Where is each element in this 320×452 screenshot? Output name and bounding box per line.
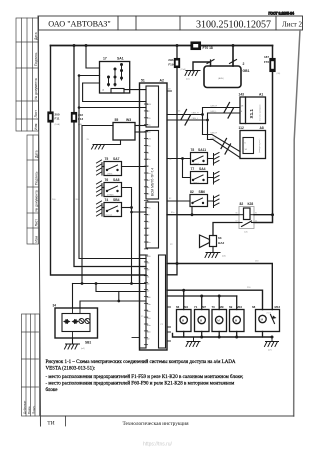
wire: HA2 ground lead xyxy=(212,247,214,253)
svg-text:К28: К28 xyxy=(248,202,254,206)
wire: lock feed bus (to M12 right pin) xyxy=(167,264,272,310)
wire: top supply bus xyxy=(51,45,273,47)
svg-text:70: 70 xyxy=(212,305,216,309)
pin label (m7) xyxy=(268,350,272,352)
svg-text:SA7: SA7 xyxy=(113,157,120,161)
node: SB6 junction xyxy=(191,213,194,216)
svg-text:https://tns.ru/: https://tns.ru/ xyxy=(143,442,173,448)
svg-text:ОАО "АВТОВАЗ": ОАО "АВТОВАЗ" xyxy=(48,20,110,29)
wire: motor return bus xyxy=(173,334,273,338)
svg-text:Х1.1: Х1.1 xyxy=(249,109,254,119)
A1 rotated connector label X1.1 xyxy=(249,109,254,119)
svg-text:М7: М7 xyxy=(202,305,206,309)
svg-text:блоке: блоке xyxy=(46,388,59,393)
component label 66 M4 xyxy=(176,305,188,309)
motor M7 (door lock actuator FR) xyxy=(195,310,210,332)
component label 82 K28 xyxy=(240,202,254,206)
pin label (kapot) xyxy=(193,163,199,165)
fuse F76 xyxy=(270,59,275,72)
wire: SA8 joining door-switch bus xyxy=(122,188,132,284)
SB1 contact arrows xyxy=(63,319,79,324)
value label 29b F19 xyxy=(168,58,174,67)
ground (HA2) xyxy=(205,253,220,258)
ground (SA4) xyxy=(208,172,220,185)
wire: SA1 ign contact to A2 xyxy=(83,83,146,102)
component label 78 SA11 xyxy=(191,148,207,152)
battery GB1 xyxy=(204,66,241,88)
svg-text:A1: A1 xyxy=(259,93,263,97)
svg-text:VESTA (21803-013-51):: VESTA (21803-013-51): xyxy=(46,367,96,372)
motor M9 (door lock actuator RL) xyxy=(212,310,227,332)
svg-text:66: 66 xyxy=(176,305,180,309)
ground (SA8 door switch) xyxy=(97,181,103,196)
A2 lower connector strip left xyxy=(140,255,147,348)
wire: M4 drop xyxy=(183,290,185,309)
node: M4 tap xyxy=(182,289,185,292)
svg-text:82: 82 xyxy=(240,202,244,206)
svg-text:76: 76 xyxy=(105,178,109,182)
svg-text:75: 75 xyxy=(105,157,109,161)
svg-text:(м5): (м5) xyxy=(81,348,85,350)
svg-text:М12: М12 xyxy=(275,305,281,309)
svg-text:143: 143 xyxy=(239,93,245,97)
component label 17 SA1 xyxy=(103,57,124,61)
node: junction at 110.3 xyxy=(78,106,81,109)
svg-text:Лист 2: Лист 2 xyxy=(282,20,302,28)
K28 contact xyxy=(239,221,254,227)
switch SA4 xyxy=(183,159,191,178)
figure caption text xyxy=(46,360,244,393)
wire: battery negative to ground xyxy=(193,62,211,71)
ground (M12) xyxy=(265,337,279,347)
component label 143 A1 xyxy=(239,93,264,97)
svg-text:(капот): (капот) xyxy=(193,163,199,165)
svg-text:Изм: Изм xyxy=(34,123,38,130)
pin labels A1 xyxy=(241,106,244,114)
wire: M10 bottom lead xyxy=(236,332,238,338)
buzzer HA2 (alarm horn) xyxy=(200,235,217,248)
wire: SB1 right feed xyxy=(80,301,146,308)
component label 55 W3 xyxy=(115,118,132,122)
svg-text:69: 69 xyxy=(229,305,233,309)
svg-text:Изм: Изм xyxy=(35,236,39,243)
pin label (lev) xyxy=(107,174,113,176)
ground (SB1) xyxy=(65,344,80,349)
wire: SB6 drop to relay line xyxy=(191,207,193,215)
A2 connector column X3 xyxy=(146,202,159,248)
svg-text:Подпись: Подпись xyxy=(34,52,38,66)
ground (SB6) xyxy=(208,195,220,208)
wire: M4 bottom lead xyxy=(183,332,185,338)
svg-text:F70 18: F70 18 xyxy=(203,46,213,50)
switch SA7 (front left door) xyxy=(102,162,122,176)
pin labels K28 xyxy=(236,213,258,234)
svg-text:Подл.: Подл. xyxy=(31,406,35,414)
value label F70 18 xyxy=(203,46,213,50)
fuse F70 (in-line on top bus) xyxy=(191,42,201,50)
pin labels CAN xyxy=(178,105,218,141)
svg-text:F76: F76 xyxy=(264,60,270,64)
svg-text:Дата: Дата xyxy=(35,150,39,158)
svg-text:Рисунок 1-1 – Схема электричес: Рисунок 1-1 – Схема электрических соедин… xyxy=(46,360,236,365)
pin label (m5) xyxy=(81,348,85,350)
svg-text:(м6): (м6) xyxy=(222,256,226,258)
fuse F11 xyxy=(48,112,53,122)
component label 76 SA8 xyxy=(105,178,120,182)
svg-text:ГОСТ 3.1105-84: ГОСТ 3.1105-84 xyxy=(269,12,295,16)
fuse F13 xyxy=(71,113,76,123)
A2 lower strip pin ticks xyxy=(144,255,147,345)
svg-text:78: 78 xyxy=(191,148,195,152)
node: SA1 feed junctions xyxy=(78,74,81,77)
svg-text:(м7): (м7) xyxy=(268,350,272,352)
svg-text:(панель приборов): (панель приборов) xyxy=(260,104,262,121)
svg-text:SA8: SA8 xyxy=(113,178,120,182)
pin labels: scattered wire numbers xyxy=(52,139,259,326)
ground (battery) xyxy=(185,71,200,76)
svg-text:Лист: Лист xyxy=(35,219,39,227)
svg-text:CAN_L: CAN_L xyxy=(192,117,200,120)
M12 internal switch xyxy=(271,315,277,324)
svg-text:34: 34 xyxy=(53,304,57,308)
svg-text:CAN_H: CAN_H xyxy=(192,112,200,115)
svg-text:№ документа: № документа xyxy=(35,190,39,211)
wire: SB1 feed center xyxy=(72,284,74,309)
svg-text:71: 71 xyxy=(194,305,198,309)
wire: feed via F19 down to door motors bus xyxy=(167,46,177,275)
relay K28 xyxy=(239,207,254,229)
twisted pair marks (A2 side) xyxy=(181,110,191,126)
SA1 internal contacts xyxy=(109,64,122,86)
wire: feed to ignition switch SA1 xyxy=(79,46,100,84)
pin label 8 xyxy=(103,89,105,92)
pin label 48 xyxy=(168,89,171,91)
svg-text:(багаж): (багаж) xyxy=(106,215,113,217)
node: CAN junctions xyxy=(201,113,209,121)
document frame: left stamp block 3 xyxy=(22,314,40,416)
wire: M12 bottom lead xyxy=(262,332,264,338)
motor M12 (trunk lock actuator with switch) xyxy=(256,310,280,332)
svg-text:(5А): (5А) xyxy=(244,231,248,234)
node: SA8/SB4 junctions xyxy=(130,206,133,285)
node: junction dots on top bus xyxy=(73,44,235,47)
A2 connector column X1 xyxy=(146,86,159,127)
svg-text:Технологическая инструкция: Технологическая инструкция xyxy=(122,421,189,427)
fuse F19 xyxy=(174,59,179,68)
document frame: left stamp block 1 xyxy=(16,18,39,131)
value label 202 F13 xyxy=(78,113,84,121)
A8 rotated note xyxy=(259,138,261,153)
switch SB1 (central lock switch block) xyxy=(55,308,98,338)
wire: SA7 to BCM xyxy=(122,166,147,168)
svg-text:НА2: НА2 xyxy=(218,241,224,245)
battery terminal posts xyxy=(211,60,234,66)
twisted pair marks (A8 side) xyxy=(221,139,231,155)
svg-text:(ЛЕВ): (ЛЕВ) xyxy=(107,174,113,176)
svg-text:(10А): (10А) xyxy=(55,123,61,126)
M motor letter xyxy=(182,319,185,323)
pin label (30) xyxy=(277,73,281,75)
wire: SB4 to door-switch bus xyxy=(122,207,132,209)
SB1 indicator lamps xyxy=(79,319,90,324)
component label 63 HA2 xyxy=(218,236,224,245)
svg-text:CAN_L: CAN_L xyxy=(210,137,218,140)
pin label (m1) xyxy=(186,79,190,81)
pin label (720) xyxy=(267,313,272,315)
node: junctions on lower cross feed xyxy=(81,282,98,285)
svg-text:(30): (30) xyxy=(277,73,281,75)
svg-text:(задн): (задн) xyxy=(193,182,199,184)
wire: SB1 ground lead xyxy=(72,338,74,344)
component label 75 SA7 xyxy=(105,157,120,161)
A2 right pin ticks xyxy=(167,91,172,341)
svg-text:(колодка диагн.): (колодка диагн.) xyxy=(259,138,261,153)
antenna W3 (immobilizer coil) xyxy=(113,123,135,141)
ground (motor bus) xyxy=(186,337,200,347)
wire: riser link xyxy=(118,292,120,302)
svg-text:63: 63 xyxy=(218,236,222,240)
svg-text:CAN_L: CAN_L xyxy=(210,110,218,113)
battery positive drop wire xyxy=(232,46,234,67)
wire: unlock bus (to M12 left pin and M4) xyxy=(167,290,263,309)
wire: left vertical feed (circuit 200) xyxy=(51,46,147,276)
component label 82 SB6 xyxy=(190,190,205,194)
twisted pair marks (A1 side) xyxy=(224,103,234,119)
svg-text:A2: A2 xyxy=(160,79,164,83)
svg-text:(720): (720) xyxy=(267,313,272,315)
svg-text:SB6: SB6 xyxy=(199,190,206,194)
svg-text:№ документа: № документа xyxy=(34,78,38,99)
svg-text:М10: М10 xyxy=(237,305,243,309)
svg-text:W3: W3 xyxy=(126,118,131,122)
wire: A2 to relay K28 coil xyxy=(167,214,239,216)
pin label (bagazh) xyxy=(106,215,113,217)
component label 70 M9 xyxy=(212,305,224,309)
component label 34 SB1 xyxy=(53,304,92,345)
node: motor bus junctions xyxy=(200,295,221,298)
op-amp U3 / diagnostic connector A8 xyxy=(240,131,266,159)
ground (SA11) xyxy=(208,153,220,166)
svg-text:77: 77 xyxy=(191,167,195,171)
wire: K28 coil to battery feed xyxy=(254,214,273,216)
svg-text:3100.25100.12057: 3100.25100.12057 xyxy=(196,20,271,31)
wire: W3 feed dropping to lower cross feed xyxy=(82,126,113,284)
A2 pin number labels xyxy=(147,103,152,341)
switch SB4 (trunk lid) xyxy=(102,203,122,217)
svg-text:55: 55 xyxy=(115,118,119,122)
value label 200 F11 xyxy=(55,113,60,121)
wire: lower cross feed to BCM xyxy=(73,283,147,285)
svg-text:Дата: Дата xyxy=(34,32,38,40)
wire: motor bus (M7 M9 M10) xyxy=(167,295,237,297)
document frame: footer row TI xyxy=(65,416,67,426)
component label 51 A2 xyxy=(141,79,164,83)
component label 71 M7 xyxy=(194,305,206,309)
svg-text:SA1: SA1 xyxy=(117,57,124,61)
svg-text:30: 30 xyxy=(255,221,257,223)
svg-text:- место расположения предохран: - место расположения предохранителей F1-… xyxy=(46,375,244,380)
svg-text:Подпись: Подпись xyxy=(35,171,39,185)
K28 coil xyxy=(244,208,251,220)
ground (W3) xyxy=(92,145,107,150)
svg-text:ТИ: ТИ xyxy=(47,421,54,427)
pin label (15A) xyxy=(181,68,186,71)
wire: door-switch bus stub to A2 xyxy=(132,211,147,213)
document frame: GOST note xyxy=(269,12,295,16)
wire: CAN pair from A2 xyxy=(167,115,208,121)
svg-text:М4: М4 xyxy=(184,305,188,309)
wire: vertical feed via F13 (circuit 202) xyxy=(74,46,146,267)
svg-text:Взам.: Взам. xyxy=(27,406,31,414)
document frame: header table xyxy=(39,16,303,30)
svg-text:SA4: SA4 xyxy=(199,167,206,171)
motor M4 (door lock actuator FL) xyxy=(177,310,192,332)
pin label (10A) xyxy=(55,123,61,126)
svg-text:ВСМ М6/7б-7Р-7.4: ВСМ М6/7б-7Р-7.4 xyxy=(151,168,155,196)
svg-text:29б: 29б xyxy=(168,58,173,62)
pin label (m6) xyxy=(222,256,226,258)
switch SB6 xyxy=(167,200,190,202)
component label 112 A8 xyxy=(239,126,264,130)
watermark xyxy=(143,442,173,448)
svg-text:82: 82 xyxy=(190,190,194,194)
A2 connector column X2 xyxy=(146,131,159,200)
svg-text:М9: М9 xyxy=(220,305,224,309)
wire: M7 drop xyxy=(201,296,203,310)
svg-text:- место расположения предохран: - место расположения предохранителей F60… xyxy=(46,382,236,387)
svg-text:(м1): (м1) xyxy=(186,79,190,81)
wire: CAN riser to A1 xyxy=(203,108,241,140)
value label 187 F76 xyxy=(264,55,270,64)
svg-text:(АКБ): (АКБ) xyxy=(218,77,224,80)
svg-text:51: 51 xyxy=(141,79,145,83)
document frame: left stamp block 2 xyxy=(27,135,39,244)
svg-text:187: 187 xyxy=(264,55,269,59)
wire: M9 drop xyxy=(218,296,220,310)
component label 69 M10 xyxy=(229,305,243,309)
node: F19 bus junction xyxy=(176,262,179,265)
svg-text:17: 17 xyxy=(103,57,107,61)
svg-text:(ПРАВ): (ПРАВ) xyxy=(107,194,114,197)
svg-text:112: 112 xyxy=(239,126,244,130)
svg-text:74: 74 xyxy=(105,198,109,202)
motor M10 (door lock actuator RR) xyxy=(230,310,245,332)
wire: cross link xyxy=(96,284,146,292)
A1 rotated note xyxy=(260,104,262,121)
component label 2 GB1 xyxy=(243,62,250,73)
pin label (AKB) xyxy=(218,77,224,80)
wire: M7 bottom lead xyxy=(201,332,203,338)
op-amp U2 / instrument cluster A1 xyxy=(240,97,266,124)
A2 column pin ticks xyxy=(144,104,147,249)
component label 68 M12 xyxy=(252,305,281,309)
node: riser junction xyxy=(117,300,120,303)
SB1 inner pin stubs xyxy=(73,308,81,338)
wire: W3 to BCM pins xyxy=(135,126,146,133)
svg-text:SB4: SB4 xyxy=(113,198,120,202)
A2 lower connector strip right xyxy=(159,255,166,348)
wire: A2 lower left stub xyxy=(132,337,140,339)
switch SA8 (front right door) xyxy=(102,183,122,197)
svg-text:CAN_H: CAN_H xyxy=(210,105,218,108)
node: return bus junctions xyxy=(200,336,273,339)
battery clamp marks xyxy=(207,60,237,64)
wire: feed via F76 to relay K28 xyxy=(254,46,273,223)
pin label (zadn) xyxy=(193,182,199,184)
svg-text:SB1: SB1 xyxy=(85,341,91,345)
svg-text:A8: A8 xyxy=(260,126,264,130)
svg-text:(15А): (15А) xyxy=(181,68,186,71)
wire: K28 contact to horn HA2 xyxy=(213,223,239,236)
svg-text:Лист: Лист xyxy=(34,110,38,118)
component label 77 SA4 xyxy=(191,167,206,171)
node: battery feed junction xyxy=(271,213,274,216)
wire: M9 bottom lead xyxy=(218,332,220,338)
wire: SA1 starter pin to A2 xyxy=(124,89,146,91)
svg-text:F19: F19 xyxy=(168,63,174,67)
component label 74 SB4 xyxy=(105,198,120,202)
op-amp U1 / control unit A2 (BCM body control module) xyxy=(140,83,168,350)
switch SA1 (ignition switch) xyxy=(100,62,130,94)
svg-text:CAN_H: CAN_H xyxy=(210,132,218,135)
document frame: outer borders xyxy=(38,16,300,426)
svg-text:F11: F11 xyxy=(55,117,60,121)
pin labels A8 xyxy=(245,143,248,152)
wire: M10 drop xyxy=(236,296,238,310)
ground (SA7 door switch) xyxy=(97,160,103,175)
svg-text:GB1: GB1 xyxy=(243,69,250,73)
pin label (5A) xyxy=(78,123,82,126)
ground (SB4 trunk switch) xyxy=(97,201,103,216)
wire: SA1 acc contact to A2 and down xyxy=(79,76,146,259)
pin label (prav) xyxy=(107,194,114,197)
svg-text:Дубликат: Дубликат xyxy=(22,400,26,414)
svg-text:68: 68 xyxy=(252,305,256,309)
wire: CAN drop to A8 xyxy=(203,135,241,158)
svg-text:86: 86 xyxy=(236,213,238,215)
value label BCM module name xyxy=(151,168,155,196)
switch SA11 (hood switch) xyxy=(167,158,191,160)
wire: W3 ground lead xyxy=(100,140,121,145)
svg-text:SA11: SA11 xyxy=(198,148,206,152)
svg-text:2: 2 xyxy=(243,62,245,66)
